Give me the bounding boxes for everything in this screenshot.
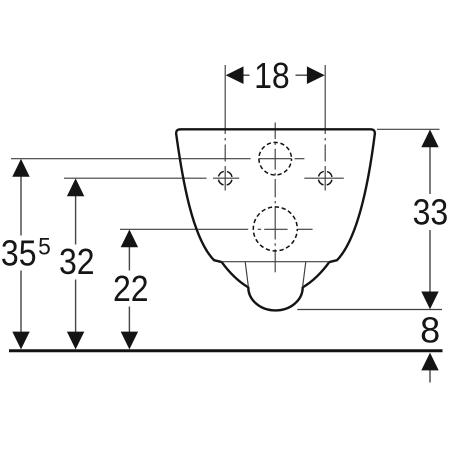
svg-text:18: 18: [254, 57, 290, 97]
svg-text:32: 32: [59, 242, 95, 282]
svg-text:35: 35: [1, 234, 37, 274]
svg-text:5: 5: [38, 233, 51, 260]
svg-text:22: 22: [113, 269, 149, 309]
svg-text:8: 8: [420, 310, 440, 351]
svg-text:33: 33: [413, 193, 449, 233]
